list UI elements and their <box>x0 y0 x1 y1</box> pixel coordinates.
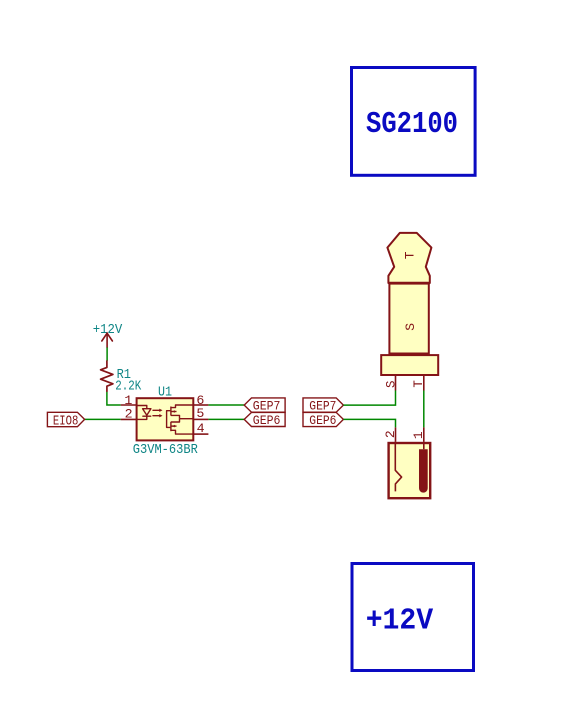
svg-text:EIO8: EIO8 <box>53 415 78 430</box>
svg-text:GEP7: GEP7 <box>253 399 281 414</box>
svg-text:2: 2 <box>125 407 133 422</box>
svg-text:T: T <box>412 380 426 388</box>
svg-text:GEP7: GEP7 <box>309 399 336 414</box>
svg-text:GEP6: GEP6 <box>253 413 281 428</box>
svg-text:S: S <box>403 323 418 331</box>
svg-text:GEP6: GEP6 <box>309 413 336 428</box>
svg-text:4: 4 <box>197 421 205 436</box>
svg-text:T: T <box>403 251 418 259</box>
svg-text:SG2100: SG2100 <box>366 108 458 142</box>
svg-text:1: 1 <box>124 393 132 408</box>
svg-text:5: 5 <box>196 406 204 421</box>
svg-text:U1: U1 <box>158 384 172 400</box>
svg-text:2: 2 <box>383 430 398 438</box>
svg-text:1: 1 <box>411 431 426 439</box>
svg-text:+12V: +12V <box>366 605 434 639</box>
svg-text:S: S <box>385 381 399 389</box>
svg-text:G3VM-63BR: G3VM-63BR <box>133 442 199 458</box>
